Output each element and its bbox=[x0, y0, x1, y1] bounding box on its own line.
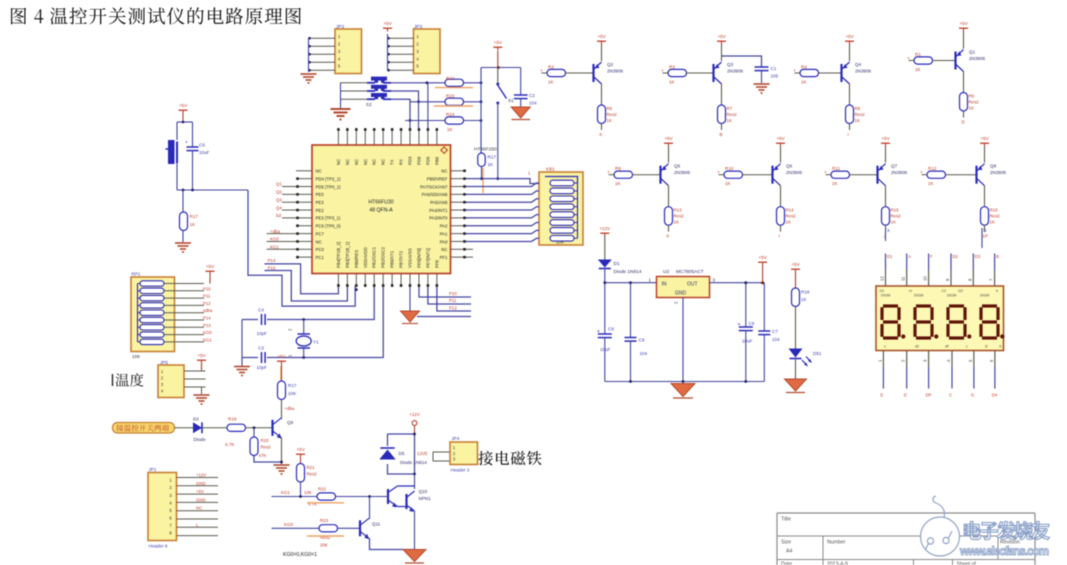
svg-text:Y1: Y1 bbox=[313, 340, 319, 345]
svg-text:R1: R1 bbox=[915, 52, 921, 57]
svg-text:1K: 1K bbox=[891, 220, 896, 225]
svg-text:C7: C7 bbox=[772, 329, 778, 334]
RP1 wires and net labels bbox=[164, 283, 204, 285]
svg-text:Sheet of: Sheet of bbox=[957, 562, 977, 565]
svg-text:R3: R3 bbox=[669, 65, 675, 70]
svg-text:v: v bbox=[884, 345, 886, 349]
resistor R20 Res2 47K bbox=[253, 428, 255, 437]
wire S2 row2 jog down bbox=[391, 91, 419, 102]
resistor R12 1K base bbox=[922, 174, 928, 176]
svg-text:C1: C1 bbox=[771, 66, 777, 71]
svg-text:8: 8 bbox=[967, 278, 972, 281]
svg-text:7: 7 bbox=[989, 278, 994, 281]
transistor Q5 2N3906 bbox=[659, 166, 661, 184]
svg-text:R8: R8 bbox=[855, 106, 861, 111]
svg-text:5: 5 bbox=[968, 359, 973, 362]
resistor R23 Res2 20K bbox=[319, 525, 338, 532]
svg-text:Q3: Q3 bbox=[276, 197, 282, 202]
svg-text:Res2: Res2 bbox=[727, 112, 738, 117]
svg-text:2N3906: 2N3906 bbox=[674, 170, 691, 175]
resistor R24 1K pull-up bbox=[445, 117, 464, 124]
svg-text:P14: P14 bbox=[268, 258, 276, 263]
svg-text:R6: R6 bbox=[607, 106, 613, 111]
svg-text:NC: NC bbox=[336, 159, 341, 165]
svg-text:A: A bbox=[908, 254, 911, 259]
svg-text:R18: R18 bbox=[801, 290, 810, 295]
svg-text:Title: Title bbox=[781, 517, 791, 523]
svg-text:PA5/AN5: PA5/AN5 bbox=[430, 200, 448, 205]
svg-text:K: K bbox=[600, 132, 603, 137]
resistor R17 1K (VREF pullup) bbox=[480, 121, 482, 155]
wire MCU bottom pin2 staircase to net P15 bbox=[265, 271, 348, 302]
digit 4 segments bbox=[982, 304, 997, 307]
svg-text:6: 6 bbox=[989, 359, 994, 362]
transistor Q2 2N3906 bbox=[592, 64, 594, 82]
wire MCU bottom pin1 staircase to net P14 bbox=[265, 264, 339, 294]
sensor input banner bbox=[113, 423, 175, 434]
svg-text:P11: P11 bbox=[203, 294, 211, 299]
svg-text:HT46F250: HT46F250 bbox=[474, 147, 497, 153]
svg-text:2: 2 bbox=[674, 301, 679, 304]
svg-text:R16: R16 bbox=[990, 208, 999, 213]
wire KB1 common to VREF row bbox=[466, 179, 539, 184]
ground under C2 bbox=[511, 107, 530, 118]
svg-text:PB2/OSC2: PB2/OSC2 bbox=[381, 246, 386, 268]
watermark text 电子发烧友 bbox=[964, 521, 1049, 540]
svg-text:1K: 1K bbox=[855, 118, 860, 123]
svg-text:2N3906: 2N3906 bbox=[727, 69, 744, 74]
svg-text:R21: R21 bbox=[307, 465, 316, 470]
svg-text:1K: 1K bbox=[548, 80, 555, 85]
svg-text:11: 11 bbox=[901, 276, 906, 281]
svg-text:Diode: Diode bbox=[194, 437, 206, 442]
svg-text:PE7[INT1]: PE7[INT1] bbox=[425, 248, 430, 268]
capacitor C1 105 at Q3 bbox=[722, 56, 762, 67]
resistor R1 1K base bbox=[909, 60, 915, 62]
svg-text:IN: IN bbox=[662, 282, 667, 288]
svg-text:1K: 1K bbox=[801, 80, 808, 85]
svg-text:KG0: KG0 bbox=[203, 330, 212, 335]
LED D51 bbox=[795, 307, 797, 349]
digit 3 segments bbox=[949, 304, 964, 307]
svg-text:D2: D2 bbox=[953, 254, 959, 259]
svg-text:GND: GND bbox=[196, 497, 206, 502]
svg-text:R17: R17 bbox=[288, 383, 297, 388]
resistor R11 1K base bbox=[826, 174, 832, 176]
svg-text:PD3: PD3 bbox=[408, 156, 413, 165]
display bottom pins bbox=[882, 351, 884, 368]
wire U2 output to +5V bbox=[710, 282, 765, 284]
svg-text:2N3906: 2N3906 bbox=[855, 69, 872, 74]
svg-text:KB1: KB1 bbox=[546, 167, 555, 172]
svg-text:1K: 1K bbox=[674, 220, 679, 225]
svg-text:C: C bbox=[949, 393, 952, 398]
ground under JP5 bbox=[201, 387, 203, 394]
capacitor C4 10pF bbox=[258, 316, 267, 324]
wire MCU bottom pins 10-12 to nets P10 P11 P12 bbox=[419, 287, 471, 297]
svg-text:2013-4-9: 2013-4-9 bbox=[827, 562, 848, 565]
MCU right pin stubs bbox=[451, 170, 467, 172]
resistor R15 Res2 1K bbox=[885, 186, 887, 207]
svg-text:RP1: RP1 bbox=[132, 272, 141, 277]
svg-text:10: 10 bbox=[923, 276, 928, 281]
svg-text:+12V: +12V bbox=[599, 226, 611, 231]
svg-text:NPN1: NPN1 bbox=[419, 496, 432, 501]
orange highlight vertical bbox=[482, 168, 484, 193]
transistor Q11 bbox=[359, 520, 361, 536]
MCU U1 HT66FU30 48-QFN bbox=[312, 145, 451, 274]
watermark elecfans logo bbox=[921, 517, 960, 556]
connector JP2 bbox=[335, 29, 362, 74]
svg-text:PB7/XT2: PB7/XT2 bbox=[399, 250, 404, 268]
svg-text:NC: NC bbox=[316, 169, 322, 174]
svg-text:+dba: +dba bbox=[285, 406, 295, 411]
wire input rail to U2 bbox=[605, 282, 657, 284]
svg-text:U2: U2 bbox=[663, 269, 669, 275]
crystal Y1 bbox=[302, 318, 305, 321]
svg-text:KG0: KG0 bbox=[284, 522, 294, 527]
svg-text:sdba: sdba bbox=[203, 308, 213, 313]
svg-text:PD5: PD5 bbox=[425, 156, 430, 165]
resistor R22 4.7K bbox=[317, 493, 336, 500]
ground under R17 bbox=[175, 242, 191, 244]
svg-text:+5V: +5V bbox=[881, 136, 890, 141]
svg-text:DIGM: DIGM bbox=[947, 294, 956, 298]
svg-text:Q4: Q4 bbox=[276, 205, 282, 210]
svg-text:X: X bbox=[887, 228, 890, 233]
svg-text:1K: 1K bbox=[725, 181, 732, 186]
transistor Q4 2N3906 bbox=[840, 64, 842, 82]
svg-text:Diode 1N914: Diode 1N914 bbox=[400, 460, 427, 465]
svg-text:R12: R12 bbox=[928, 166, 937, 171]
connector JP4 bbox=[433, 451, 450, 453]
ground under D51 bbox=[785, 379, 807, 391]
svg-text:R5: R5 bbox=[969, 94, 975, 99]
MCU top pin stubs bbox=[337, 128, 339, 145]
switch S2 (3-position DIP) bbox=[371, 77, 387, 81]
svg-text:Q7: Q7 bbox=[891, 164, 898, 169]
svg-text:Res2: Res2 bbox=[674, 214, 685, 219]
svg-text:D51: D51 bbox=[813, 351, 822, 356]
transistor Q3 2N3906 bbox=[712, 64, 714, 82]
svg-text:2: 2 bbox=[288, 328, 293, 331]
svg-text:+12V: +12V bbox=[409, 412, 421, 417]
capacitor C9 104 bbox=[630, 283, 632, 338]
svg-text:Q5: Q5 bbox=[674, 164, 681, 169]
resistor R18 1K bbox=[792, 288, 800, 307]
svg-text:1K: 1K bbox=[607, 118, 612, 123]
ground under crystal rail bbox=[241, 358, 243, 367]
svg-text:NC: NC bbox=[441, 247, 447, 252]
svg-text:D3: D3 bbox=[975, 254, 981, 259]
resistor R2 1K base bbox=[542, 72, 548, 74]
display DS1 4-digit seven-segment bbox=[876, 286, 1004, 351]
svg-text:Res2: Res2 bbox=[891, 214, 902, 219]
wire reset net to MCU pin PB0/RES bbox=[248, 190, 355, 306]
svg-text:+5V: +5V bbox=[206, 264, 215, 269]
svg-text:1K: 1K bbox=[832, 181, 839, 186]
svg-text:m: m bbox=[909, 289, 912, 293]
svg-text:x: x bbox=[921, 169, 923, 174]
MCU left pin wires with net labels Q1-Q4 bbox=[282, 186, 296, 188]
svg-text:G: G bbox=[971, 393, 974, 398]
diode D5 1N914 flyback bbox=[379, 446, 397, 464]
resistor R5 Res2 1K bbox=[963, 72, 965, 93]
svg-text:2N3906: 2N3906 bbox=[786, 170, 803, 175]
svg-text:+5V: +5V bbox=[776, 136, 785, 141]
svg-text:Res2: Res2 bbox=[307, 472, 318, 477]
wire banner to D2 bbox=[175, 427, 194, 429]
svg-text:PA0: PA0 bbox=[440, 239, 448, 244]
svg-text:104: 104 bbox=[529, 101, 537, 106]
svg-text:NC: NC bbox=[381, 159, 386, 165]
svg-text:PC0: PC0 bbox=[316, 247, 325, 252]
svg-text:D: D bbox=[904, 393, 907, 398]
resistor R8 Res2 1K bbox=[849, 84, 851, 105]
svg-text:R23: R23 bbox=[320, 518, 329, 523]
svg-text:HT66FU30: HT66FU30 bbox=[368, 200, 393, 206]
MCU bottom pin stubs bbox=[337, 274, 339, 288]
svg-text:PB1/OSC1: PB1/OSC1 bbox=[372, 246, 377, 268]
svg-text:S1: S1 bbox=[508, 98, 514, 103]
label 接电磁铁 (connect electromagnet) bbox=[478, 451, 541, 465]
resistor R14 Res2 1K bbox=[780, 186, 782, 207]
svg-text:F: F bbox=[930, 254, 933, 259]
svg-text:1: 1 bbox=[877, 359, 882, 362]
svg-text:JP5: JP5 bbox=[160, 360, 168, 365]
wire MCU top pins to switch rows bbox=[427, 83, 429, 128]
svg-text:48 QFN-A: 48 QFN-A bbox=[369, 208, 393, 214]
wire KG1 net bbox=[272, 496, 318, 498]
svg-text:KG0=0,KG0=1: KG0=0,KG0=1 bbox=[283, 552, 317, 558]
connector JP1 Header 8 bbox=[148, 473, 177, 541]
svg-text:1: 1 bbox=[288, 354, 293, 357]
ground under driver bbox=[403, 550, 426, 562]
svg-text:1K: 1K bbox=[928, 181, 935, 186]
svg-text:12: 12 bbox=[880, 276, 885, 281]
svg-text:Q11: Q11 bbox=[372, 522, 381, 527]
wire resistor right ends to +5V rail bbox=[464, 82, 482, 84]
svg-text:R11: R11 bbox=[832, 166, 841, 171]
svg-text:NC: NC bbox=[196, 506, 202, 511]
svg-text:+5V: +5V bbox=[383, 21, 392, 26]
svg-text:NC: NC bbox=[354, 159, 359, 165]
transistor Q8 2N3906 bbox=[975, 166, 977, 184]
svg-text:R22: R22 bbox=[446, 76, 455, 81]
svg-text:+5V: +5V bbox=[597, 34, 606, 39]
wire S2 row1 to R22 bbox=[391, 82, 445, 84]
svg-text:Q2: Q2 bbox=[276, 190, 282, 195]
svg-text:1: 1 bbox=[649, 278, 652, 283]
svg-text:+5V: +5V bbox=[959, 21, 968, 26]
MCU right lower stubs bbox=[466, 248, 473, 250]
svg-text:PE3 (TP3_1): PE3 (TP3_1) bbox=[316, 216, 341, 221]
svg-text:+5V: +5V bbox=[717, 34, 726, 39]
svg-text:RX: RX bbox=[399, 159, 404, 165]
svg-text:Q1: Q1 bbox=[969, 50, 976, 55]
resistor R23 1K pull-up bbox=[445, 98, 464, 105]
wire +5V top rail bbox=[481, 67, 521, 69]
svg-text:C2: C2 bbox=[942, 289, 947, 293]
svg-text:R2: R2 bbox=[548, 65, 554, 70]
wire R22 to Q10 base bbox=[336, 496, 389, 498]
svg-text:Diode 1N914: Diode 1N914 bbox=[614, 269, 642, 275]
svg-text:PA1: PA1 bbox=[440, 231, 448, 236]
resistor R16 Res2 1K bbox=[984, 186, 986, 207]
capacitor C8 10uF bbox=[604, 283, 606, 334]
svg-text:+5V: +5V bbox=[179, 103, 188, 108]
svg-text:+5V: +5V bbox=[664, 136, 673, 141]
resistor network RP1 10K bbox=[131, 277, 175, 352]
resistor R7 Res2 1K bbox=[721, 84, 723, 105]
wire S2 left rail to ground bbox=[341, 82, 368, 84]
wire loop bottom / junction bbox=[177, 189, 248, 191]
svg-text:P10: P10 bbox=[203, 286, 211, 291]
svg-text:R20: R20 bbox=[261, 438, 270, 443]
wire S1 to VREF row bbox=[497, 103, 499, 179]
svg-text:PC6 (TP0_0): PC6 (TP0_0) bbox=[316, 224, 342, 229]
orange highlight under R22b bbox=[307, 502, 344, 504]
svg-text:+5V: +5V bbox=[296, 447, 305, 452]
svg-text:10K: 10K bbox=[304, 490, 312, 495]
svg-text:4: 4 bbox=[946, 359, 951, 362]
digit 2 segments bbox=[916, 304, 931, 307]
connector JP5 temperature probe bbox=[158, 365, 184, 398]
svg-text:2: 2 bbox=[901, 359, 906, 362]
svg-text:+5V: +5V bbox=[791, 262, 800, 267]
svg-text:b: b bbox=[996, 289, 998, 293]
capacitor C2 104 bbox=[520, 68, 522, 96]
svg-text:x: x bbox=[794, 68, 796, 73]
svg-text:10uF: 10uF bbox=[199, 150, 210, 155]
svg-text:Header 8: Header 8 bbox=[149, 544, 168, 549]
ground of power supply bbox=[671, 384, 695, 397]
svg-text:R19: R19 bbox=[228, 417, 237, 422]
svg-text:x: x bbox=[608, 169, 610, 174]
svg-text:KG1: KG1 bbox=[270, 245, 279, 250]
svg-text:NC: NC bbox=[441, 169, 447, 174]
crystal circuit: wire top rail bbox=[242, 287, 374, 320]
svg-text:2N3906: 2N3906 bbox=[607, 69, 624, 74]
svg-text:R9: R9 bbox=[615, 166, 621, 171]
svg-text:PF1: PF1 bbox=[440, 255, 448, 260]
svg-text:2N3906: 2N3906 bbox=[990, 170, 1007, 175]
svg-text:10uF: 10uF bbox=[742, 339, 753, 344]
svg-text:x: x bbox=[718, 169, 720, 174]
svg-text:2N3906: 2N3906 bbox=[891, 170, 908, 175]
capacitor C6 10uF bbox=[745, 283, 747, 327]
svg-text:Q10: Q10 bbox=[419, 489, 428, 494]
svg-text:PC1: PC1 bbox=[316, 255, 325, 260]
resistor R17 10K bbox=[281, 365, 283, 382]
svg-text:+: + bbox=[738, 322, 741, 328]
svg-text:L: L bbox=[196, 522, 199, 527]
wire bottom rail to OSC pin bbox=[242, 287, 383, 358]
svg-text:D4: D4 bbox=[992, 393, 998, 398]
svg-text:P15: P15 bbox=[268, 265, 276, 270]
svg-text:1K: 1K bbox=[801, 297, 808, 302]
svg-text:R23: R23 bbox=[446, 94, 455, 99]
svg-text:Number: Number bbox=[827, 540, 846, 546]
wires MCU PA pins to KB1 bbox=[466, 183, 539, 187]
svg-text:R24: R24 bbox=[446, 112, 455, 117]
wire display pin12 net stub bbox=[885, 228, 887, 241]
svg-text:+5V: +5V bbox=[980, 136, 989, 141]
svg-text:R7: R7 bbox=[727, 106, 733, 111]
svg-text:K: K bbox=[667, 234, 670, 239]
svg-text:P14: P14 bbox=[203, 316, 211, 321]
svg-text:TX: TX bbox=[390, 159, 395, 165]
display top pins bbox=[885, 270, 887, 286]
svg-text:10pF: 10pF bbox=[257, 365, 268, 370]
svg-text:x: x bbox=[825, 169, 827, 174]
svg-text:+5V: +5V bbox=[197, 353, 206, 358]
transistor Q7 2N3906 bbox=[876, 166, 878, 184]
svg-text:PD5 (TP0_1): PD5 (TP0_1) bbox=[316, 184, 342, 189]
transistor Q9 bbox=[271, 420, 273, 436]
svg-text:KG1: KG1 bbox=[203, 337, 212, 342]
svg-text:JP2: JP2 bbox=[336, 24, 345, 30]
svg-text:Res2: Res2 bbox=[607, 112, 618, 117]
svg-text:+5V: +5V bbox=[196, 489, 204, 494]
svg-text:NC: NC bbox=[363, 159, 368, 165]
svg-text:R17: R17 bbox=[488, 155, 497, 160]
svg-text:Q8: Q8 bbox=[990, 164, 997, 169]
digit 1 segments bbox=[883, 304, 898, 307]
resistor R3 1K base bbox=[663, 72, 669, 74]
svg-text:Res2: Res2 bbox=[261, 445, 272, 450]
svg-text:E: E bbox=[880, 393, 883, 398]
wire S2 row3 jog down bbox=[391, 99, 410, 120]
svg-text:i2: i2 bbox=[985, 345, 988, 349]
svg-text:*: * bbox=[186, 141, 188, 147]
ground under S2 bbox=[331, 108, 351, 110]
svg-text:47K: 47K bbox=[259, 453, 267, 458]
capacitor C7 104 bbox=[763, 283, 765, 331]
svg-text:R14: R14 bbox=[786, 208, 795, 213]
resistor R13 Res2 1K bbox=[668, 186, 670, 207]
svg-text:+5V: +5V bbox=[494, 40, 503, 45]
svg-text:+: + bbox=[597, 329, 600, 335]
wire display pin8 net stub bbox=[981, 228, 983, 248]
svg-text:2N3906: 2N3906 bbox=[969, 56, 986, 61]
svg-text:PE6[INT0]: PE6[INT0] bbox=[416, 248, 421, 268]
wire R23 to Q11 base bbox=[338, 527, 360, 529]
diode D1 1N914 bbox=[604, 237, 606, 260]
svg-text:PB5/VREF: PB5/VREF bbox=[427, 176, 448, 181]
svg-text:4.7K: 4.7K bbox=[225, 442, 235, 447]
svg-text:D: D bbox=[962, 120, 965, 125]
svg-text:Res2: Res2 bbox=[855, 112, 866, 117]
wire D5 loop bbox=[388, 434, 415, 474]
svg-text:PB3[TP1B_1]: PB3[TP1B_1] bbox=[345, 242, 350, 268]
svg-text:JP3: JP3 bbox=[414, 24, 423, 30]
svg-text:1K: 1K bbox=[669, 80, 676, 85]
svg-text:P12: P12 bbox=[449, 305, 457, 310]
resistor R6 Res2 1K bbox=[601, 84, 603, 105]
svg-text:Q9: Q9 bbox=[287, 420, 294, 425]
svg-text:10K: 10K bbox=[288, 391, 297, 396]
svg-text:PB0/RES: PB0/RES bbox=[354, 250, 359, 268]
svg-text:Date: Date bbox=[781, 562, 792, 565]
orange highlight line 1 bbox=[435, 87, 473, 89]
svg-text:10K: 10K bbox=[132, 354, 141, 359]
svg-text:S2: S2 bbox=[366, 102, 372, 107]
svg-text:D: D bbox=[984, 228, 987, 233]
svg-text:3: 3 bbox=[713, 278, 716, 283]
svg-text:105: 105 bbox=[771, 74, 779, 79]
svg-text:PE2: PE2 bbox=[316, 208, 325, 213]
